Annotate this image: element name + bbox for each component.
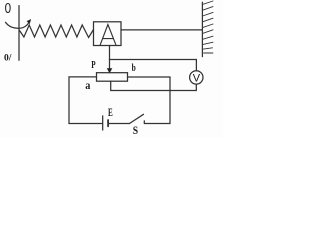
ammeter A1 box (94, 22, 122, 46)
wire ammeter down to wiper junction (109, 46, 111, 60)
battery E long plate (102, 116, 104, 130)
switch S contact (143, 121, 145, 124)
wire switch to right vertical (145, 123, 171, 125)
right vertical wire (169, 77, 171, 124)
svg-text:P: P (91, 60, 96, 72)
battery E short plate (107, 120, 109, 126)
wire junction to voltmeter top (110, 60, 197, 71)
svg-text:a: a (85, 79, 90, 92)
wiper P arrow (109, 60, 111, 72)
wall (fixed support) (201, 2, 203, 56)
wall hatching (203, 1, 213, 53)
ammeter A1 letter (100, 25, 116, 45)
switch S lever (130, 114, 144, 123)
rotation arrow (6, 21, 31, 29)
rod (pivot lever) (18, 6, 20, 61)
svg-text:V: V (193, 72, 201, 84)
svg-text:S: S (133, 124, 138, 137)
wire a to left vertical (69, 77, 97, 124)
bottom wire left (69, 123, 102, 125)
wire voltmeter bottom to rheostat bottom (111, 81, 197, 90)
wire battery to switch (109, 123, 130, 125)
resistance wire (zigzag) (20, 25, 94, 38)
voltmeter V circle (190, 71, 203, 84)
svg-text:b: b (132, 62, 136, 73)
wire ammeter to wall (121, 29, 202, 31)
wire b terminal (128, 76, 171, 78)
svg-text:0/: 0/ (4, 53, 12, 63)
svg-text:E: E (108, 107, 113, 120)
rheostat body (97, 73, 128, 82)
svg-text:0: 0 (5, 0, 12, 16)
